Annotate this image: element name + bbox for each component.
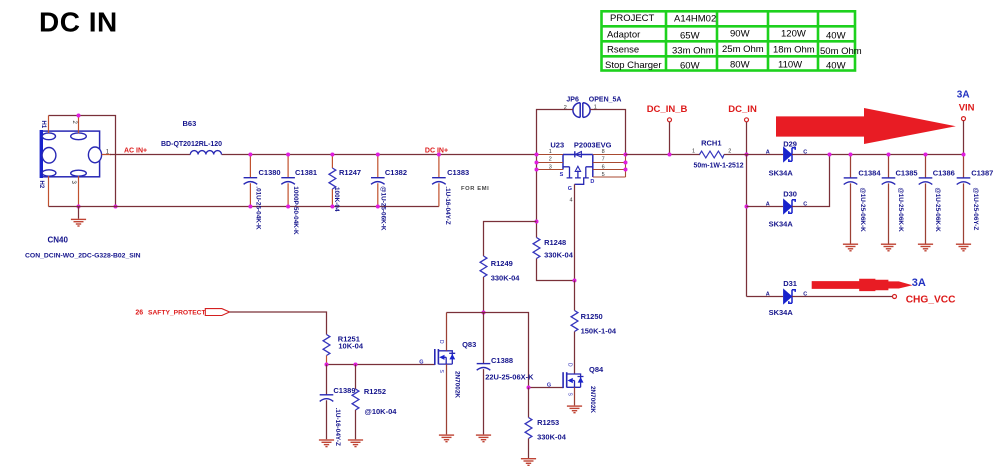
svg-text:A: A: [766, 292, 770, 298]
svg-text:3A: 3A: [912, 277, 926, 289]
svg-text:65W: 65W: [680, 30, 700, 41]
svg-text:80W: 80W: [730, 59, 750, 70]
svg-text:10K-04: 10K-04: [338, 342, 363, 351]
svg-text:S: S: [560, 172, 564, 178]
svg-text:OPEN_5A: OPEN_5A: [589, 96, 622, 103]
svg-text:C1387: C1387: [971, 169, 993, 178]
svg-text:Q83: Q83: [462, 340, 476, 349]
terminal VIN: [962, 117, 966, 121]
svg-text:110W: 110W: [778, 59, 802, 70]
svg-text:D30: D30: [783, 190, 797, 199]
svg-text:26: 26: [135, 310, 143, 317]
ground CN40: [78, 206, 80, 219]
diode D31: [747, 279, 808, 317]
diode D30: [747, 190, 808, 229]
label DC_IN_B: [647, 104, 688, 157]
wire JP6 right leg: [590, 110, 626, 155]
svg-text:@1U-25-06K-K: @1U-25-06K-K: [859, 188, 866, 233]
svg-text:2: 2: [728, 149, 731, 155]
svg-text:AC IN+: AC IN+: [124, 147, 147, 154]
svg-text:22U-25-06X-K: 22U-25-06X-K: [485, 372, 534, 381]
terminal CHG_VCC: [893, 295, 897, 299]
resistor R1250: [571, 281, 617, 374]
svg-text:C1383: C1383: [447, 168, 469, 177]
svg-text:H1: H1: [40, 121, 46, 129]
svg-text:3A: 3A: [957, 89, 970, 100]
svg-text:50m Ohm: 50m Ohm: [820, 46, 862, 57]
svg-text:DC_IN_B: DC_IN_B: [647, 104, 688, 115]
wire JP6 left leg: [537, 110, 574, 222]
wire D31 cathode to CHG_VCC: [792, 296, 893, 298]
svg-text:R1247: R1247: [339, 168, 361, 177]
svg-text:A14HM02: A14HM02: [674, 13, 716, 24]
svg-text:R1249: R1249: [491, 259, 513, 268]
wire Q83 drain row: [447, 313, 529, 388]
wire ground rail: [49, 206, 439, 208]
svg-text:FOR EMI: FOR EMI: [461, 186, 489, 192]
label DC_IN: [728, 104, 757, 157]
svg-text:BD-QT2012RL-120: BD-QT2012RL-120: [161, 141, 222, 148]
svg-text:A: A: [766, 202, 770, 208]
diode D29: [766, 139, 808, 177]
svg-text:S: S: [566, 393, 572, 397]
svg-text:2N7002K: 2N7002K: [589, 386, 596, 413]
node CN40 bottom junction: [77, 205, 81, 209]
svg-text:330K-04: 330K-04: [491, 273, 521, 282]
svg-text:DC_IN: DC_IN: [728, 104, 757, 115]
pin numbers 1 2 3: [549, 149, 552, 171]
svg-text:D31: D31: [783, 279, 797, 288]
svg-text:G: G: [419, 360, 423, 366]
svg-text:4: 4: [570, 198, 573, 204]
svg-text:.1U-16-04Y-Z: .1U-16-04Y-Z: [444, 186, 451, 224]
wire U23 pin stubs left: [537, 155, 564, 170]
svg-text:VIN: VIN: [959, 102, 975, 113]
svg-text:C1384: C1384: [858, 169, 881, 178]
wire gate row Q83: [327, 364, 435, 366]
pin numbers 8 7 6 5: [602, 149, 605, 178]
svg-text:.1U-16-04Y-Z: .1U-16-04Y-Z: [334, 408, 341, 446]
svg-text:B63: B63: [183, 119, 197, 128]
ground Q83: [439, 435, 454, 442]
svg-text:JP6: JP6: [566, 96, 579, 103]
svg-text:D: D: [438, 340, 444, 344]
svg-text:40W: 40W: [826, 30, 846, 41]
svg-text:@1U-25-06Y-Z: @1U-25-06Y-Z: [972, 188, 979, 231]
svg-text:C1389: C1389: [333, 386, 355, 395]
svg-text:330K-04: 330K-04: [537, 433, 567, 442]
capacitor C1381: [281, 153, 317, 235]
svg-text:3: 3: [549, 164, 552, 170]
arrow VIN big: [776, 108, 956, 144]
svg-text:8: 8: [602, 149, 605, 155]
capacitor C1384: [844, 153, 882, 244]
ground Q84: [567, 406, 582, 413]
offpage connector SAFTY_PROTECT: [135, 309, 229, 317]
svg-text:3: 3: [70, 181, 76, 185]
wire U23 gate down: [574, 184, 576, 280]
capacitor C1386: [919, 153, 955, 244]
capacitor C1388: [477, 313, 534, 435]
svg-text:C1380: C1380: [259, 168, 281, 177]
transistor Q84: [547, 363, 604, 413]
svg-text:C1381: C1381: [295, 168, 317, 177]
svg-text:7: 7: [602, 157, 605, 163]
svg-text:6: 6: [602, 164, 605, 170]
svg-text:90W: 90W: [730, 29, 750, 40]
svg-text:1000P-50-04K-K: 1000P-50-04K-K: [292, 186, 299, 235]
capacitor C1383: [432, 153, 469, 225]
svg-text:@1U-25-06K-K: @1U-25-06K-K: [897, 188, 904, 233]
svg-text:Q84: Q84: [589, 365, 604, 374]
svg-text:@1U-25-06K-K: @1U-25-06K-K: [379, 186, 386, 231]
svg-text:G: G: [547, 383, 551, 389]
svg-text:2: 2: [549, 157, 552, 163]
node CN40 top junction: [77, 114, 81, 118]
capacitor C1380: [244, 153, 281, 231]
wire SAFTY to R1251: [230, 312, 327, 335]
svg-text:U23: U23: [550, 140, 564, 149]
svg-text:100K-04: 100K-04: [333, 187, 340, 212]
wire DC_IN down: [746, 155, 748, 297]
table project power: [602, 11, 862, 71]
resistor R1248: [533, 220, 576, 283]
arrow CHG small: [812, 279, 913, 291]
svg-text:60W: 60W: [680, 61, 700, 72]
svg-text:C1386: C1386: [933, 169, 955, 178]
ground C1388: [476, 435, 491, 442]
svg-text:Rsense: Rsense: [607, 45, 639, 56]
svg-text:D29: D29: [783, 139, 797, 148]
ground R1252: [348, 440, 363, 447]
svg-text:SAFTY_PROTECT: SAFTY_PROTECT: [148, 310, 207, 317]
op U23 P2003EVG pmos: [550, 140, 611, 203]
capacitor C1387: [957, 153, 994, 244]
svg-text:P2003EVG: P2003EVG: [574, 140, 612, 149]
svg-text:Adaptor: Adaptor: [607, 30, 640, 41]
capacitor C1385: [882, 153, 918, 244]
svg-text:G: G: [568, 186, 572, 192]
wire AC IN+: [110, 154, 537, 156]
svg-text:D: D: [590, 179, 594, 185]
svg-text:150K-1-04: 150K-1-04: [581, 327, 617, 336]
svg-text:330K-04: 330K-04: [544, 251, 574, 260]
inductor B63: [190, 151, 221, 155]
jumper JP6: [564, 96, 622, 117]
svg-text:RCH1: RCH1: [701, 138, 721, 147]
svg-text:SK34A: SK34A: [769, 220, 794, 229]
node rail corner junction: [114, 205, 118, 209]
resistor R1251: [323, 334, 364, 364]
svg-text:120W: 120W: [781, 29, 806, 40]
connector CN40: [38, 121, 110, 189]
svg-text:50m-1W-1-2512: 50m-1W-1-2512: [694, 163, 744, 170]
wire CN40 loop: [49, 116, 116, 207]
node U23 right junctions: [624, 153, 628, 157]
svg-text:S: S: [438, 370, 444, 374]
svg-text:@10K-04: @10K-04: [365, 407, 398, 416]
svg-text:18m Ohm: 18m Ohm: [773, 44, 815, 55]
resistor R1249: [480, 256, 520, 315]
svg-text:R1253: R1253: [537, 418, 559, 427]
resistor R1252: [352, 365, 397, 440]
svg-text:DC IN: DC IN: [39, 7, 118, 38]
svg-text:C1388: C1388: [491, 356, 513, 365]
wire U23 pin stubs right: [593, 155, 626, 178]
svg-text:CHG_VCC: CHG_VCC: [906, 294, 956, 305]
wire main to RCH1: [626, 154, 701, 156]
wire R1249 branch: [484, 222, 537, 257]
svg-text:R1248: R1248: [544, 238, 566, 247]
svg-text:D: D: [566, 363, 572, 367]
svg-text:25m Ohm: 25m Ohm: [722, 44, 764, 55]
wire D30 cathode up: [792, 155, 830, 207]
svg-text:Stop Charger: Stop Charger: [605, 60, 662, 71]
svg-text:R1250: R1250: [581, 312, 603, 321]
svg-text:1: 1: [549, 149, 552, 155]
svg-text:A: A: [766, 150, 770, 156]
svg-text:SK34A: SK34A: [769, 308, 794, 317]
ground C1389: [319, 440, 334, 447]
svg-text:@1U-25-06K-K: @1U-25-06K-K: [934, 188, 941, 233]
svg-text:1: 1: [692, 149, 695, 155]
capacitor C1389: [320, 365, 356, 446]
svg-text:R1252: R1252: [364, 387, 386, 396]
svg-text:DC IN+: DC IN+: [425, 148, 448, 155]
resistor RCH1: [692, 138, 744, 169]
resistor R1247: [329, 153, 361, 212]
resistor R1253: [525, 388, 567, 459]
svg-text:33m Ohm: 33m Ohm: [672, 45, 714, 56]
wire CN40 pin leads: [49, 116, 112, 207]
svg-text:C1385: C1385: [896, 169, 918, 178]
svg-text:C1382: C1382: [385, 168, 407, 177]
svg-text:CON_DCIN-WO_2DC-G328-B02_SIN: CON_DCIN-WO_2DC-G328-B02_SIN: [25, 253, 141, 260]
ground R1253: [521, 459, 536, 466]
svg-text:40W: 40W: [826, 61, 846, 72]
wire Q84 gate stub: [529, 387, 564, 389]
svg-text:SK34A: SK34A: [769, 169, 794, 178]
svg-text:5: 5: [602, 172, 605, 178]
svg-text:2N7002K: 2N7002K: [453, 371, 460, 398]
capacitor C1382: [371, 153, 407, 231]
svg-text:H2: H2: [38, 181, 44, 189]
svg-text:CN40: CN40: [48, 236, 69, 245]
svg-text:PROJECT: PROJECT: [610, 13, 655, 24]
wire RCH1 to D29: [724, 154, 783, 156]
transistor Q83: [419, 313, 476, 435]
node U23 left junctions: [535, 153, 539, 157]
wire D29 cathode: [792, 154, 964, 156]
svg-text:.01U-25-04K-K: .01U-25-04K-K: [254, 186, 261, 230]
svg-text:2: 2: [71, 121, 77, 125]
